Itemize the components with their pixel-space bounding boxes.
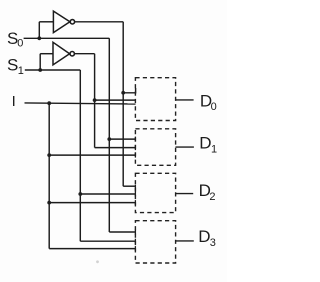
wire S0 corner tap into box D3: [109, 231, 135, 233]
node junction dot on I line at I bus: [47, 101, 51, 105]
wire I corner tap into box D3: [49, 248, 135, 250]
inverter U2 output bubble: [70, 52, 74, 56]
tick at box D2 input S1: [134, 192, 136, 197]
wire U2 input riser from S1 line: [39, 54, 41, 70]
wire S1 vertical bus: [79, 70, 81, 241]
wire I tap into box D1: [49, 154, 135, 156]
wire S0' corner tap into box D2: [123, 185, 135, 187]
wire output stub D1: [176, 146, 194, 148]
tick at box D1 input I: [134, 153, 136, 158]
label D3: [198, 227, 216, 249]
label D0: [200, 91, 217, 113]
node junction dot S1 to box D2: [78, 192, 82, 196]
svg-text:D: D: [199, 134, 211, 153]
svg-text:0: 0: [17, 37, 23, 49]
wire S0' tap into box D0 with hook: [123, 88, 135, 93]
label S0: [7, 29, 23, 50]
tick at box D1 input S1': [134, 145, 136, 150]
wire U2 input horizontal: [40, 53, 53, 55]
wire S1' corner tap into box D1: [95, 147, 136, 149]
svg-text:2: 2: [209, 191, 215, 203]
tick at box D2 input I: [134, 200, 136, 205]
inverter U1 output bubble: [70, 20, 74, 24]
wire I vertical bus: [48, 103, 50, 248]
tick at box D1 input S0: [134, 137, 136, 142]
wire S1 input horizontal line: [25, 69, 81, 71]
wire output stub D0: [176, 99, 194, 101]
svg-text:I: I: [12, 93, 16, 110]
speck artifact bottom center: [96, 260, 99, 263]
node junction dot I to box D1: [47, 153, 51, 157]
svg-text:1: 1: [211, 143, 217, 155]
wire S0 vertical bus: [108, 38, 110, 232]
svg-text:0: 0: [211, 101, 217, 113]
wire U1 output horizontal (S0' net): [75, 21, 124, 23]
label D2: [199, 181, 216, 203]
svg-text:S: S: [7, 56, 18, 75]
wire S1 corner tap into box D3: [80, 240, 135, 242]
wire output stub D3: [176, 240, 194, 242]
dashed box placeholder gate for D2: [135, 173, 175, 212]
dashed box placeholder gate for D0: [135, 78, 175, 121]
svg-text:1: 1: [18, 65, 24, 77]
node junction dot S0 to box D1: [107, 137, 111, 141]
node junction dot on S1 line at U2 riser: [38, 68, 42, 72]
inverter U1 (S0 inverter) triangle: [53, 11, 70, 32]
wire S0' vertical bus: [122, 22, 124, 186]
node junction dot on S0 line at U1 riser: [37, 36, 41, 40]
wire I tap into box D2: [49, 202, 135, 204]
tick at box D3 input S1: [134, 239, 136, 244]
label D1: [199, 134, 217, 156]
tick at box D3 input S0: [134, 230, 136, 235]
wire I input horizontal line into box D0: [25, 103, 136, 104]
wire U2 output horizontal (S1' net): [75, 53, 95, 55]
wire S0 tap into box D1: [109, 138, 135, 140]
dashed box placeholder gate for D1: [135, 129, 175, 166]
wire S1 tap into box D2: [80, 193, 135, 195]
svg-text:3: 3: [210, 237, 216, 249]
wire S1' vertical bus: [94, 54, 96, 148]
wire U1 input horizontal: [39, 21, 53, 23]
wire S1' tap into box D0: [95, 99, 136, 101]
node junction dot S1' to box D0: [93, 98, 97, 102]
tick at box D2 input S0': [134, 185, 136, 191]
node junction dot S0' to box D0: [121, 91, 125, 95]
inverter U2 (S1 inverter) triangle: [53, 42, 70, 65]
wire output stub D2: [176, 193, 194, 195]
label S1: [7, 56, 24, 77]
dashed box placeholder gate for D3: [135, 221, 175, 263]
wire S0 input horizontal line: [24, 37, 110, 39]
node junction dot I to box D2: [47, 201, 51, 205]
wire U1 input riser from S0 line: [38, 22, 40, 39]
tick at box D3 input I: [134, 246, 136, 251]
